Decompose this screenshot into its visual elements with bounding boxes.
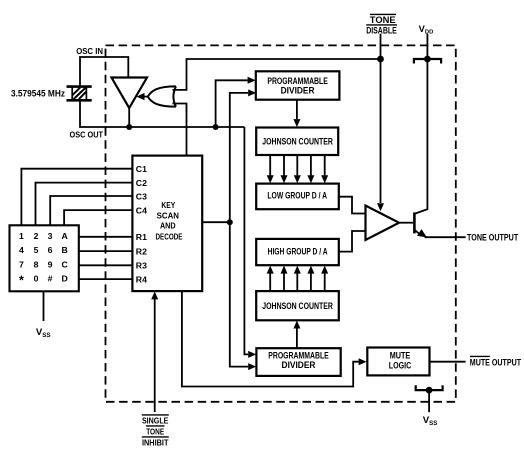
wire NOR input1 to TONE DISABLE net: [173, 59, 381, 90]
arrow divider2 to johnson counter 2: [296, 329, 298, 348]
svg-text:DECODE: DECODE: [156, 232, 183, 242]
box programmable divider 2: [256, 348, 340, 376]
wire row R4: [79, 278, 133, 280]
junction dot key scan output: [227, 219, 233, 225]
svg-text:DIVIDER: DIVIDER: [281, 85, 316, 95]
svg-text:MUTE OUTPUT: MUTE OUTPUT: [470, 357, 521, 368]
svg-text:SS: SS: [42, 332, 50, 339]
box mute logic: [367, 348, 429, 376]
wire MUTE OUTPUT: [430, 361, 466, 363]
wire NOR input2 to key scan top: [173, 104, 187, 156]
svg-text:OSC IN: OSC IN: [76, 47, 103, 56]
svg-text:A: A: [61, 231, 68, 241]
svg-text:R2: R2: [136, 246, 147, 256]
wire OSC to programmable divider 2: [244, 127, 248, 354]
crystal Y1 plates: [67, 87, 92, 101]
junction dot OSC OUT tap: [213, 124, 219, 130]
label SINGLE TONE INHIBIT (overlined): [142, 416, 169, 448]
wire VSS lead: [428, 390, 430, 412]
svg-text:6: 6: [48, 245, 53, 255]
wire TONE DISABLE vertical: [380, 34, 382, 203]
wire column C3: [50, 196, 132, 225]
VDD rail bracket: [414, 59, 441, 64]
arrow divider1 to johnson counter 1: [296, 100, 298, 119]
svg-text:B: B: [61, 245, 67, 255]
keypad box: [10, 225, 79, 291]
svg-text:4: 4: [19, 245, 24, 255]
svg-text:AND: AND: [160, 221, 176, 231]
svg-text:5: 5: [34, 245, 39, 255]
svg-text:TONE: TONE: [146, 427, 164, 437]
wire row R3: [79, 264, 133, 266]
crystal Y1 body (hatched): [72, 87, 86, 101]
arrow NOR output into inverter: [142, 96, 149, 98]
arrowhead TONE DISABLE into amp: [377, 203, 384, 211]
svg-text:7: 7: [19, 259, 24, 269]
svg-text:#: #: [48, 274, 53, 284]
wire row R2: [79, 250, 133, 252]
svg-text:R1: R1: [136, 232, 147, 242]
arrows johnson2 to high group D/A (5): [270, 273, 325, 291]
junction dot VDD bracket: [424, 56, 431, 63]
keypad digits: [19, 231, 68, 288]
arrow SINGLE TONE INHIBIT into key scan: [154, 299, 156, 412]
op-amp output buffer triangle: [366, 206, 400, 241]
wire keypad to VSS: [43, 291, 45, 321]
svg-text:C: C: [61, 259, 68, 269]
box programmable divider 1: [256, 71, 340, 99]
transistor Q1 base bar: [413, 212, 416, 233]
svg-text:3.579545 MHz: 3.579545 MHz: [11, 88, 65, 98]
label VSS (keypad): [36, 327, 51, 339]
svg-text:OSC OUT: OSC OUT: [70, 131, 104, 140]
junction dot TONE DISABLE / NOR net: [377, 56, 384, 63]
svg-text:HIGH GROUP D / A: HIGH GROUP D / A: [268, 247, 328, 257]
svg-text:SINGLE: SINGLE: [142, 416, 169, 426]
svg-text:SS: SS: [429, 420, 437, 427]
label VSS (right): [423, 415, 438, 427]
svg-text:8: 8: [34, 259, 39, 269]
wire OSC OUT: [80, 100, 244, 127]
junction dot VSS bracket: [426, 387, 433, 394]
svg-text:R4: R4: [136, 274, 147, 284]
NOR gate (mirrored, pointing left): [148, 86, 176, 106]
svg-text:2: 2: [34, 231, 39, 241]
svg-text:JOHNSON COUNTER: JOHNSON COUNTER: [262, 136, 333, 146]
junction dot inverter/OSC OUT: [126, 124, 132, 130]
label TONE DISABLE (overlined): [366, 15, 397, 35]
svg-text:TONE: TONE: [370, 15, 396, 25]
transistor Q1 emitter with arrow: [414, 230, 421, 235]
wire column C2: [36, 183, 133, 226]
wire low D/A to amp: [339, 197, 365, 214]
inverter (oscillator) triangle: [112, 78, 148, 109]
label VDD: [419, 24, 434, 36]
svg-text:R3: R3: [136, 261, 147, 271]
wire key scan to mute logic: [182, 291, 359, 386]
svg-text:DISABLE: DISABLE: [366, 26, 397, 36]
svg-text:TONE OUTPUT: TONE OUTPUT: [467, 233, 518, 244]
arrows johnson1 to low group D/A (5): [270, 156, 325, 176]
box johnson counter 1: [256, 128, 338, 156]
svg-text:C3: C3: [136, 191, 147, 201]
wire OSC IN: [80, 57, 128, 87]
svg-text:INHIBIT: INHIBIT: [142, 438, 169, 448]
wire high D/A to amp: [339, 231, 365, 252]
wire column C4: [64, 210, 132, 225]
wire TONE OUTPUT: [425, 236, 466, 238]
VSS rail bracket (right): [416, 385, 443, 390]
transistor Q1 base wire: [399, 222, 413, 224]
svg-text:1: 1: [19, 231, 24, 241]
svg-text:C1: C1: [136, 164, 147, 174]
svg-text:9: 9: [48, 259, 53, 269]
wire inverter output to OSC OUT: [128, 108, 130, 127]
svg-text:DIVIDER: DIVIDER: [282, 360, 317, 370]
svg-text:SCAN: SCAN: [157, 210, 179, 220]
wire OSC to programmable divider 1: [216, 80, 248, 127]
svg-text:LOGIC: LOGIC: [389, 360, 412, 370]
box johnson counter 2: [256, 291, 339, 320]
svg-text:C2: C2: [136, 178, 147, 188]
chip boundary dashed box: [106, 45, 456, 401]
box key scan and decode: [132, 156, 202, 292]
svg-text:DD: DD: [425, 29, 433, 35]
box low group D/A: [256, 184, 339, 210]
wire VDD vertical to transistor collector: [415, 34, 427, 214]
svg-text:C4: C4: [136, 205, 147, 215]
wire key scan select to dividers: [202, 93, 248, 367]
svg-text:LOW GROUP D / A: LOW GROUP D / A: [267, 190, 327, 200]
wire row R1: [79, 236, 133, 238]
svg-text:JOHNSON COUNTER: JOHNSON COUNTER: [262, 301, 333, 311]
svg-text:D: D: [61, 274, 67, 284]
svg-text:MUTE: MUTE: [390, 351, 411, 361]
svg-text:KEY: KEY: [161, 200, 175, 210]
wire column C1: [21, 169, 132, 226]
svg-text:3: 3: [48, 231, 53, 241]
svg-text:*: *: [19, 274, 24, 288]
box high group D/A: [256, 239, 339, 265]
svg-text:0: 0: [34, 274, 39, 284]
